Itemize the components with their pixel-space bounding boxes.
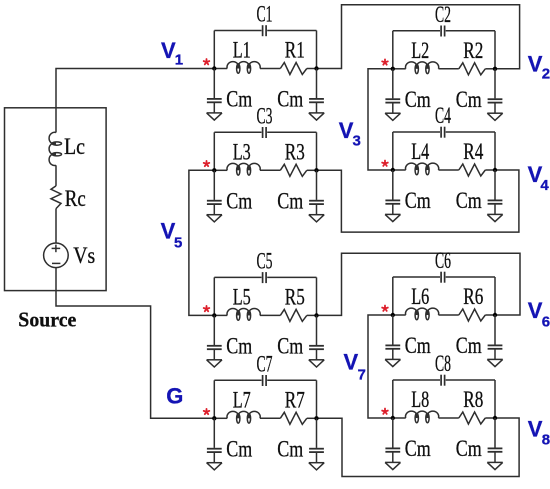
wire: block 2 right branch riser (494, 31, 496, 69)
ground (block 3 left) (207, 214, 222, 216)
voltage source Vs (44, 243, 69, 268)
inductor L4 (406, 163, 439, 170)
wire: node V1 to source top into box (56, 69, 214, 133)
svg-text:R4: R4 (463, 139, 483, 164)
resistor Rc (51, 186, 61, 209)
wire: block 6 right branch riser (494, 277, 496, 315)
wire: block 7 right branch riser (316, 380, 318, 418)
svg-text:V: V (528, 298, 543, 323)
capacitor Cm (block 5 left) (213, 315, 215, 345)
svg-text:L5: L5 (233, 285, 251, 310)
wire: block 2 top branch (393, 30, 440, 32)
red asterisk marker at block 5 input (204, 306, 210, 311)
svg-text:R5: R5 (285, 285, 305, 310)
capacitor C5 (262, 272, 264, 283)
svg-text:C3: C3 (257, 104, 273, 129)
capacitor Cm (block 4 left) (392, 170, 394, 200)
svg-text:Source: Source (18, 308, 76, 332)
ground (block 1 left) (207, 112, 222, 114)
ground (block 2 right) (487, 112, 502, 114)
capacitor Cm (block 1 right) (316, 69, 318, 99)
ground (block 5 right) (309, 359, 324, 361)
svg-text:Cm: Cm (277, 333, 303, 358)
wire: block 7 left branch riser (213, 380, 215, 418)
ground (block 4 right) (487, 213, 502, 215)
wire: source bottom to node G to block7 input (56, 268, 214, 419)
capacitor C1 (262, 25, 264, 36)
svg-text:Cm: Cm (277, 87, 303, 112)
node dot: block 8 input (391, 416, 395, 420)
wire: block 3 right branch riser (316, 132, 318, 170)
wire: block 6 main horizontal (393, 314, 406, 316)
ground (block 7 left) (207, 462, 222, 464)
node dot: block 3 output (314, 168, 318, 172)
red asterisk marker at block 7 input (204, 409, 210, 414)
ground (block 7 right) (309, 462, 324, 464)
svg-text:4: 4 (540, 177, 549, 194)
svg-text:1: 1 (175, 52, 183, 69)
ground (block 4 left) (385, 213, 400, 215)
wire: block 7 main horizontal (214, 417, 227, 419)
svg-text:7: 7 (358, 366, 366, 383)
wire: block 2 left branch riser (392, 31, 394, 69)
wire: block 1 main horizontal (214, 68, 227, 70)
svg-text:R3: R3 (285, 139, 305, 164)
red asterisk marker at block 3 input (204, 161, 210, 166)
svg-text:Cm: Cm (405, 188, 431, 213)
resistor R7 (280, 412, 307, 424)
svg-text:C5: C5 (257, 249, 273, 274)
inductor L7 (227, 411, 260, 418)
capacitor Cm (block 6 right) (494, 315, 496, 345)
svg-text:R8: R8 (463, 387, 483, 412)
svg-text:Cm: Cm (456, 87, 482, 112)
svg-text:V: V (528, 52, 543, 77)
svg-text:Cm: Cm (456, 333, 482, 358)
svg-text:Cm: Cm (405, 87, 431, 112)
capacitor C6 (440, 272, 442, 283)
ground (block 8 right) (487, 461, 502, 463)
svg-text:Cm: Cm (456, 188, 482, 213)
svg-text:C6: C6 (435, 248, 451, 273)
capacitor Cm (block 3 left) (213, 170, 215, 200)
wire: block 3 top branch (214, 131, 261, 133)
svg-text:Cm: Cm (226, 436, 252, 461)
resistor R8 (459, 412, 486, 424)
svg-text:Cm: Cm (226, 188, 252, 213)
capacitor Cm (block 2 right) (494, 69, 496, 99)
ground (block 6 right) (487, 358, 502, 360)
wire: block 3 left branch riser (213, 132, 215, 170)
red asterisk marker at block 4 input (382, 161, 388, 166)
wire: block 4 right branch riser (494, 132, 496, 170)
node dot: block 1 input (212, 66, 216, 70)
resistor R6 (459, 309, 486, 321)
wire (55, 165, 57, 186)
ground (block 6 left) (385, 358, 400, 360)
svg-text:R7: R7 (285, 387, 305, 412)
svg-text:Cm: Cm (226, 333, 252, 358)
wire: block 5 top branch (214, 276, 261, 278)
svg-text:R1: R1 (285, 38, 305, 63)
node dot: block 6 input (391, 313, 395, 317)
wire: block3 output via lower bus to node V4 (317, 170, 519, 232)
svg-text:L3: L3 (233, 139, 251, 164)
inductor L5 (227, 308, 260, 315)
capacitor C7 (262, 375, 264, 386)
svg-text:C1: C1 (257, 2, 273, 27)
wire: node V5 vertical, block3 input to block5 input (189, 170, 214, 315)
svg-text:C4: C4 (435, 103, 451, 128)
svg-text:Cm: Cm (226, 87, 252, 112)
capacitor C4 (440, 127, 442, 138)
svg-text:Lc: Lc (64, 134, 85, 159)
svg-text:C2: C2 (435, 2, 451, 27)
capacitor C8 (440, 375, 442, 386)
node dot: block 6 output (493, 313, 497, 317)
source box (5, 108, 107, 291)
svg-text:L7: L7 (233, 387, 251, 412)
svg-text:Cm: Cm (405, 436, 431, 461)
capacitor Cm (block 8 right) (494, 418, 496, 448)
node dot: block 2 output (493, 67, 497, 71)
inductor Lc (49, 132, 56, 165)
red asterisk marker at block 1 input (204, 59, 210, 64)
capacitor Cm (block 4 right) (494, 170, 496, 200)
inductor L1 (227, 62, 260, 69)
wire: node V7 vertical, block6 input to block8 input (368, 315, 393, 418)
resistor R5 (280, 309, 307, 321)
ground (block 8 left) (385, 461, 400, 463)
ground (block 2 left) (385, 112, 400, 114)
resistor R1 (280, 63, 307, 75)
svg-text:2: 2 (542, 66, 550, 83)
svg-text:Rc: Rc (65, 186, 86, 211)
wire: block 4 left branch riser (392, 132, 394, 170)
wire: block 5 right branch riser (316, 277, 318, 315)
svg-text:Vs: Vs (73, 243, 95, 268)
svg-text:8: 8 (542, 432, 550, 449)
svg-text:L6: L6 (411, 284, 429, 309)
svg-text:5: 5 (174, 234, 182, 251)
wire (55, 209, 57, 243)
capacitor Cm (block 8 left) (392, 418, 394, 448)
resistor R3 (280, 164, 307, 176)
wire: block 8 main horizontal (393, 417, 406, 419)
node dot: block 8 output (493, 416, 497, 420)
svg-text:V: V (344, 350, 359, 375)
node dot: block 4 output (493, 168, 497, 172)
svg-text:L4: L4 (411, 139, 429, 164)
svg-text:L2: L2 (411, 38, 429, 63)
capacitor Cm (block 2 left) (392, 69, 394, 99)
svg-text:L1: L1 (233, 38, 251, 63)
svg-text:L8: L8 (411, 387, 429, 412)
capacitor Cm (block 5 right) (316, 315, 318, 345)
wire: block 5 main horizontal (214, 314, 227, 316)
capacitor Cm (block 7 right) (316, 418, 318, 448)
svg-text:Cm: Cm (405, 333, 431, 358)
wire: block 8 top branch (393, 379, 440, 381)
wire: block 1 top branch (214, 30, 261, 32)
node dot: block 5 output (314, 313, 318, 317)
wire: block1 output over top bus to node V2 (317, 5, 520, 69)
resistor R2 (459, 63, 486, 75)
svg-text:R2: R2 (463, 38, 483, 63)
node dot: block 2 input (391, 67, 395, 71)
wire: block 7 top branch (214, 379, 261, 381)
wire: block 2 main horizontal (393, 68, 406, 70)
ground (block 5 left) (207, 359, 222, 361)
resistor R4 (459, 164, 486, 176)
capacitor C2 (440, 26, 442, 37)
svg-text:6: 6 (542, 313, 550, 330)
wire: block 4 top branch (393, 131, 440, 133)
node dot: block 3 input (212, 168, 216, 172)
red asterisk marker at block 8 input (382, 409, 388, 414)
svg-text:Cm: Cm (277, 436, 303, 461)
svg-text:G: G (166, 383, 183, 408)
node dot: block 4 input (391, 168, 395, 172)
svg-text:C7: C7 (257, 352, 273, 377)
capacitor Cm (block 1 left) (213, 69, 215, 99)
svg-text:3: 3 (353, 133, 361, 150)
wire: block 4 main horizontal (393, 169, 406, 171)
wire: block 8 right branch riser (494, 380, 496, 418)
red asterisk marker at block 2 input (382, 59, 388, 64)
wire: block5 output via upper bus to node V6 (317, 253, 521, 315)
ground (block 1 right) (309, 112, 324, 114)
capacitor Cm (block 7 left) (213, 418, 215, 448)
svg-text:Cm: Cm (277, 188, 303, 213)
node dot: block 5 input (212, 313, 216, 317)
wire: block 6 left branch riser (392, 277, 394, 315)
node dot: block 1 output (314, 66, 318, 70)
svg-text:V: V (528, 416, 543, 441)
wire: node V3 vertical, block2 input to block4 input (368, 69, 393, 170)
svg-text:Cm: Cm (456, 436, 482, 461)
wire: block 8 left branch riser (392, 380, 394, 418)
wire: block 5 left branch riser (213, 277, 215, 315)
svg-text:C8: C8 (435, 351, 451, 376)
capacitor Cm (block 6 left) (392, 315, 394, 345)
wire: block7 output via bottom bus to node V8 (317, 418, 520, 477)
inductor L2 (406, 62, 439, 69)
red asterisk marker at block 6 input (382, 306, 388, 311)
wire: block 6 top branch (393, 276, 440, 278)
inductor L6 (406, 308, 439, 315)
node dot: block 7 output (314, 416, 318, 420)
inductor L8 (406, 411, 439, 418)
inductor L3 (227, 163, 260, 170)
capacitor C3 (262, 127, 264, 138)
ground (block 3 right) (309, 214, 324, 216)
wire: block 3 main horizontal (214, 169, 227, 171)
svg-text:R6: R6 (463, 284, 483, 309)
capacitor Cm (block 3 right) (316, 170, 318, 200)
wire: block 1 left branch riser (213, 31, 215, 69)
svg-text:V: V (161, 38, 176, 63)
node dot: block 7 input (212, 416, 216, 420)
wire: block 1 right branch riser (316, 31, 318, 69)
